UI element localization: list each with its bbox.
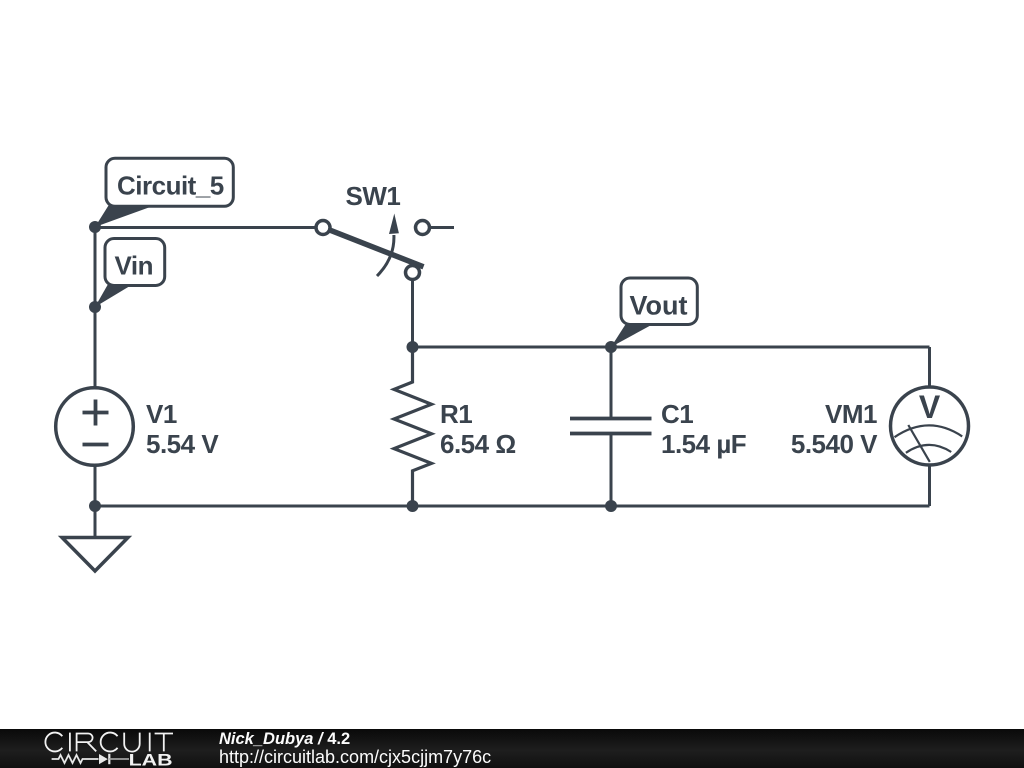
logo LAB text — [129, 750, 173, 768]
wire: left vertical from top node down to V1 — [94, 227, 97, 389]
node: V1 bottom junction — [89, 500, 101, 512]
node: Circuit_5 net at top-left — [89, 221, 101, 233]
voltage source V1 — [56, 388, 134, 466]
logo CIRCUIT wordmark — [45, 733, 173, 752]
wire: VM1 bottom lead — [928, 463, 931, 506]
callout Vin — [95, 239, 165, 308]
node: Vout junction — [605, 341, 617, 353]
footer url line — [219, 747, 491, 767]
footer author line — [219, 730, 350, 748]
node: R1 bottom junction — [407, 500, 419, 512]
label V1 value — [146, 399, 219, 459]
svg-text:http://circuitlab.com/cjx5cjjm: http://circuitlab.com/cjx5cjjm7y76c — [219, 747, 491, 767]
svg-text:Nick_Dubya / 4.2: Nick_Dubya / 4.2 — [219, 730, 350, 748]
svg-text:1.54 µF: 1.54 µF — [661, 429, 746, 459]
node: R1 top junction — [407, 341, 419, 353]
label R1 value — [440, 399, 516, 459]
wire: VM1 top lead — [928, 347, 931, 389]
voltmeter VM1 — [891, 387, 969, 465]
node: Vin — [89, 301, 101, 313]
svg-text:SW1: SW1 — [346, 181, 401, 211]
label C1 value — [661, 399, 746, 459]
footer bar — [0, 729, 1024, 768]
svg-text:R1: R1 — [440, 399, 472, 429]
label SW1 — [346, 181, 401, 211]
wire: from SW1 bottom terminal down to Vout bus — [411, 279, 414, 347]
svg-text:6.54 Ω: 6.54 Ω — [440, 429, 516, 459]
wire: stub right of SW1 open terminal — [430, 226, 455, 229]
label VM1 value — [791, 399, 878, 459]
resistor R1 — [394, 347, 432, 506]
switch SW1 — [316, 214, 430, 280]
svg-text:VM1: VM1 — [825, 399, 877, 429]
svg-text:Vout: Vout — [630, 291, 688, 321]
svg-text:Circuit_5: Circuit_5 — [117, 171, 224, 201]
logo resistor-diode glyph — [52, 754, 129, 764]
svg-text:5.540 V: 5.540 V — [791, 429, 878, 459]
svg-text:LAB: LAB — [129, 750, 173, 768]
wire: top horizontal from node to SW1 left terminal — [95, 226, 316, 229]
callout Circuit_5 — [95, 158, 233, 227]
wire: bottom ground bus — [95, 505, 930, 508]
ground — [62, 506, 128, 571]
wire: Vout horizontal bus — [413, 346, 930, 349]
svg-text:V1: V1 — [146, 399, 177, 429]
wire: V1 bottom lead — [94, 464, 97, 506]
svg-text:Vin: Vin — [115, 251, 153, 281]
callout Vout — [611, 278, 697, 347]
svg-text:V: V — [919, 389, 941, 425]
svg-text:5.54 V: 5.54 V — [146, 429, 219, 459]
node: C1 bottom junction — [605, 500, 617, 512]
svg-text:C1: C1 — [661, 399, 693, 429]
capacitor C1 — [570, 347, 652, 506]
